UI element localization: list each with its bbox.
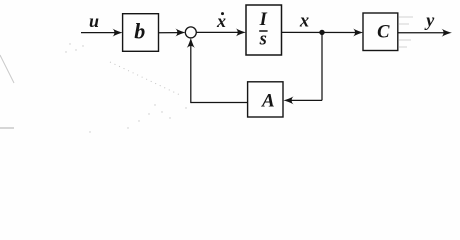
svg-text:b: b <box>134 18 145 43</box>
svg-text:x: x <box>216 11 226 31</box>
wire: up to summing junction <box>190 44 192 103</box>
wire: output y <box>398 32 445 34</box>
fraction bar <box>259 30 267 32</box>
wire: integrator to C <box>282 31 357 33</box>
scan artifact: dotted diagonal streak below block b <box>110 62 180 95</box>
arrowhead into summing junction <box>175 29 185 37</box>
svg-text:I: I <box>259 10 268 30</box>
wire: node x down <box>321 32 323 100</box>
arrowhead into block C <box>353 29 363 37</box>
block C <box>363 13 398 51</box>
arrowhead into block b <box>113 29 123 37</box>
node dot x <box>319 30 324 35</box>
block I/s integrator <box>246 5 282 55</box>
scan artifact: speckles lower-middle <box>65 43 186 132</box>
svg-text:A: A <box>261 91 275 112</box>
wire: down to block A <box>290 99 322 101</box>
wire: summing junction to integrator <box>196 31 239 33</box>
wire: b to summing junction <box>159 32 179 34</box>
svg-text:x: x <box>299 11 309 31</box>
arrowhead into integrator <box>236 28 246 36</box>
scan artifact: faint diagonal line left edge <box>0 55 14 83</box>
wire: input u <box>81 32 115 34</box>
label x-dot <box>216 11 226 31</box>
svg-text:u: u <box>89 11 99 31</box>
arrowhead into block A <box>283 96 293 104</box>
svg-text:C: C <box>377 23 390 43</box>
scan artifact: faint dash bottom-left <box>0 127 14 129</box>
block A <box>248 82 283 117</box>
summing junction circle <box>185 27 196 38</box>
svg-text:s: s <box>259 29 267 49</box>
scan artifact: gray streaks right of block C <box>399 17 413 47</box>
arrowhead into summing junction bottom <box>187 38 195 48</box>
arrowhead output y <box>442 29 452 37</box>
wire: A output left <box>191 102 248 104</box>
block b <box>123 14 159 52</box>
svg-text:y: y <box>424 10 435 30</box>
